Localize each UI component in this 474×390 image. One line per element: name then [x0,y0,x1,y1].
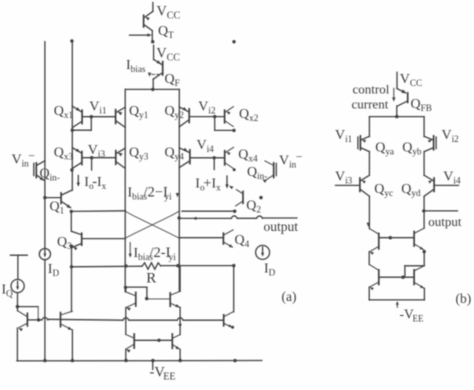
svg-text:EE: EE [413,314,424,324]
svg-text:yi: yi [164,193,172,203]
svg-text:/2-I: /2-I [150,245,171,261]
svg-text:output: output [428,214,462,229]
svg-text:(b): (b) [456,291,472,306]
svg-text:EE: EE [163,372,175,383]
svg-text:yi: yi [169,253,177,263]
svg-text:control: control [353,82,390,97]
svg-text:−: − [296,150,303,164]
svg-text:current: current [352,97,389,112]
svg-text:R: R [146,271,156,287]
svg-text:−: − [28,149,35,163]
svg-text:output: output [264,219,299,234]
svg-text:(a): (a) [282,289,297,304]
svg-text:+: + [203,176,211,192]
